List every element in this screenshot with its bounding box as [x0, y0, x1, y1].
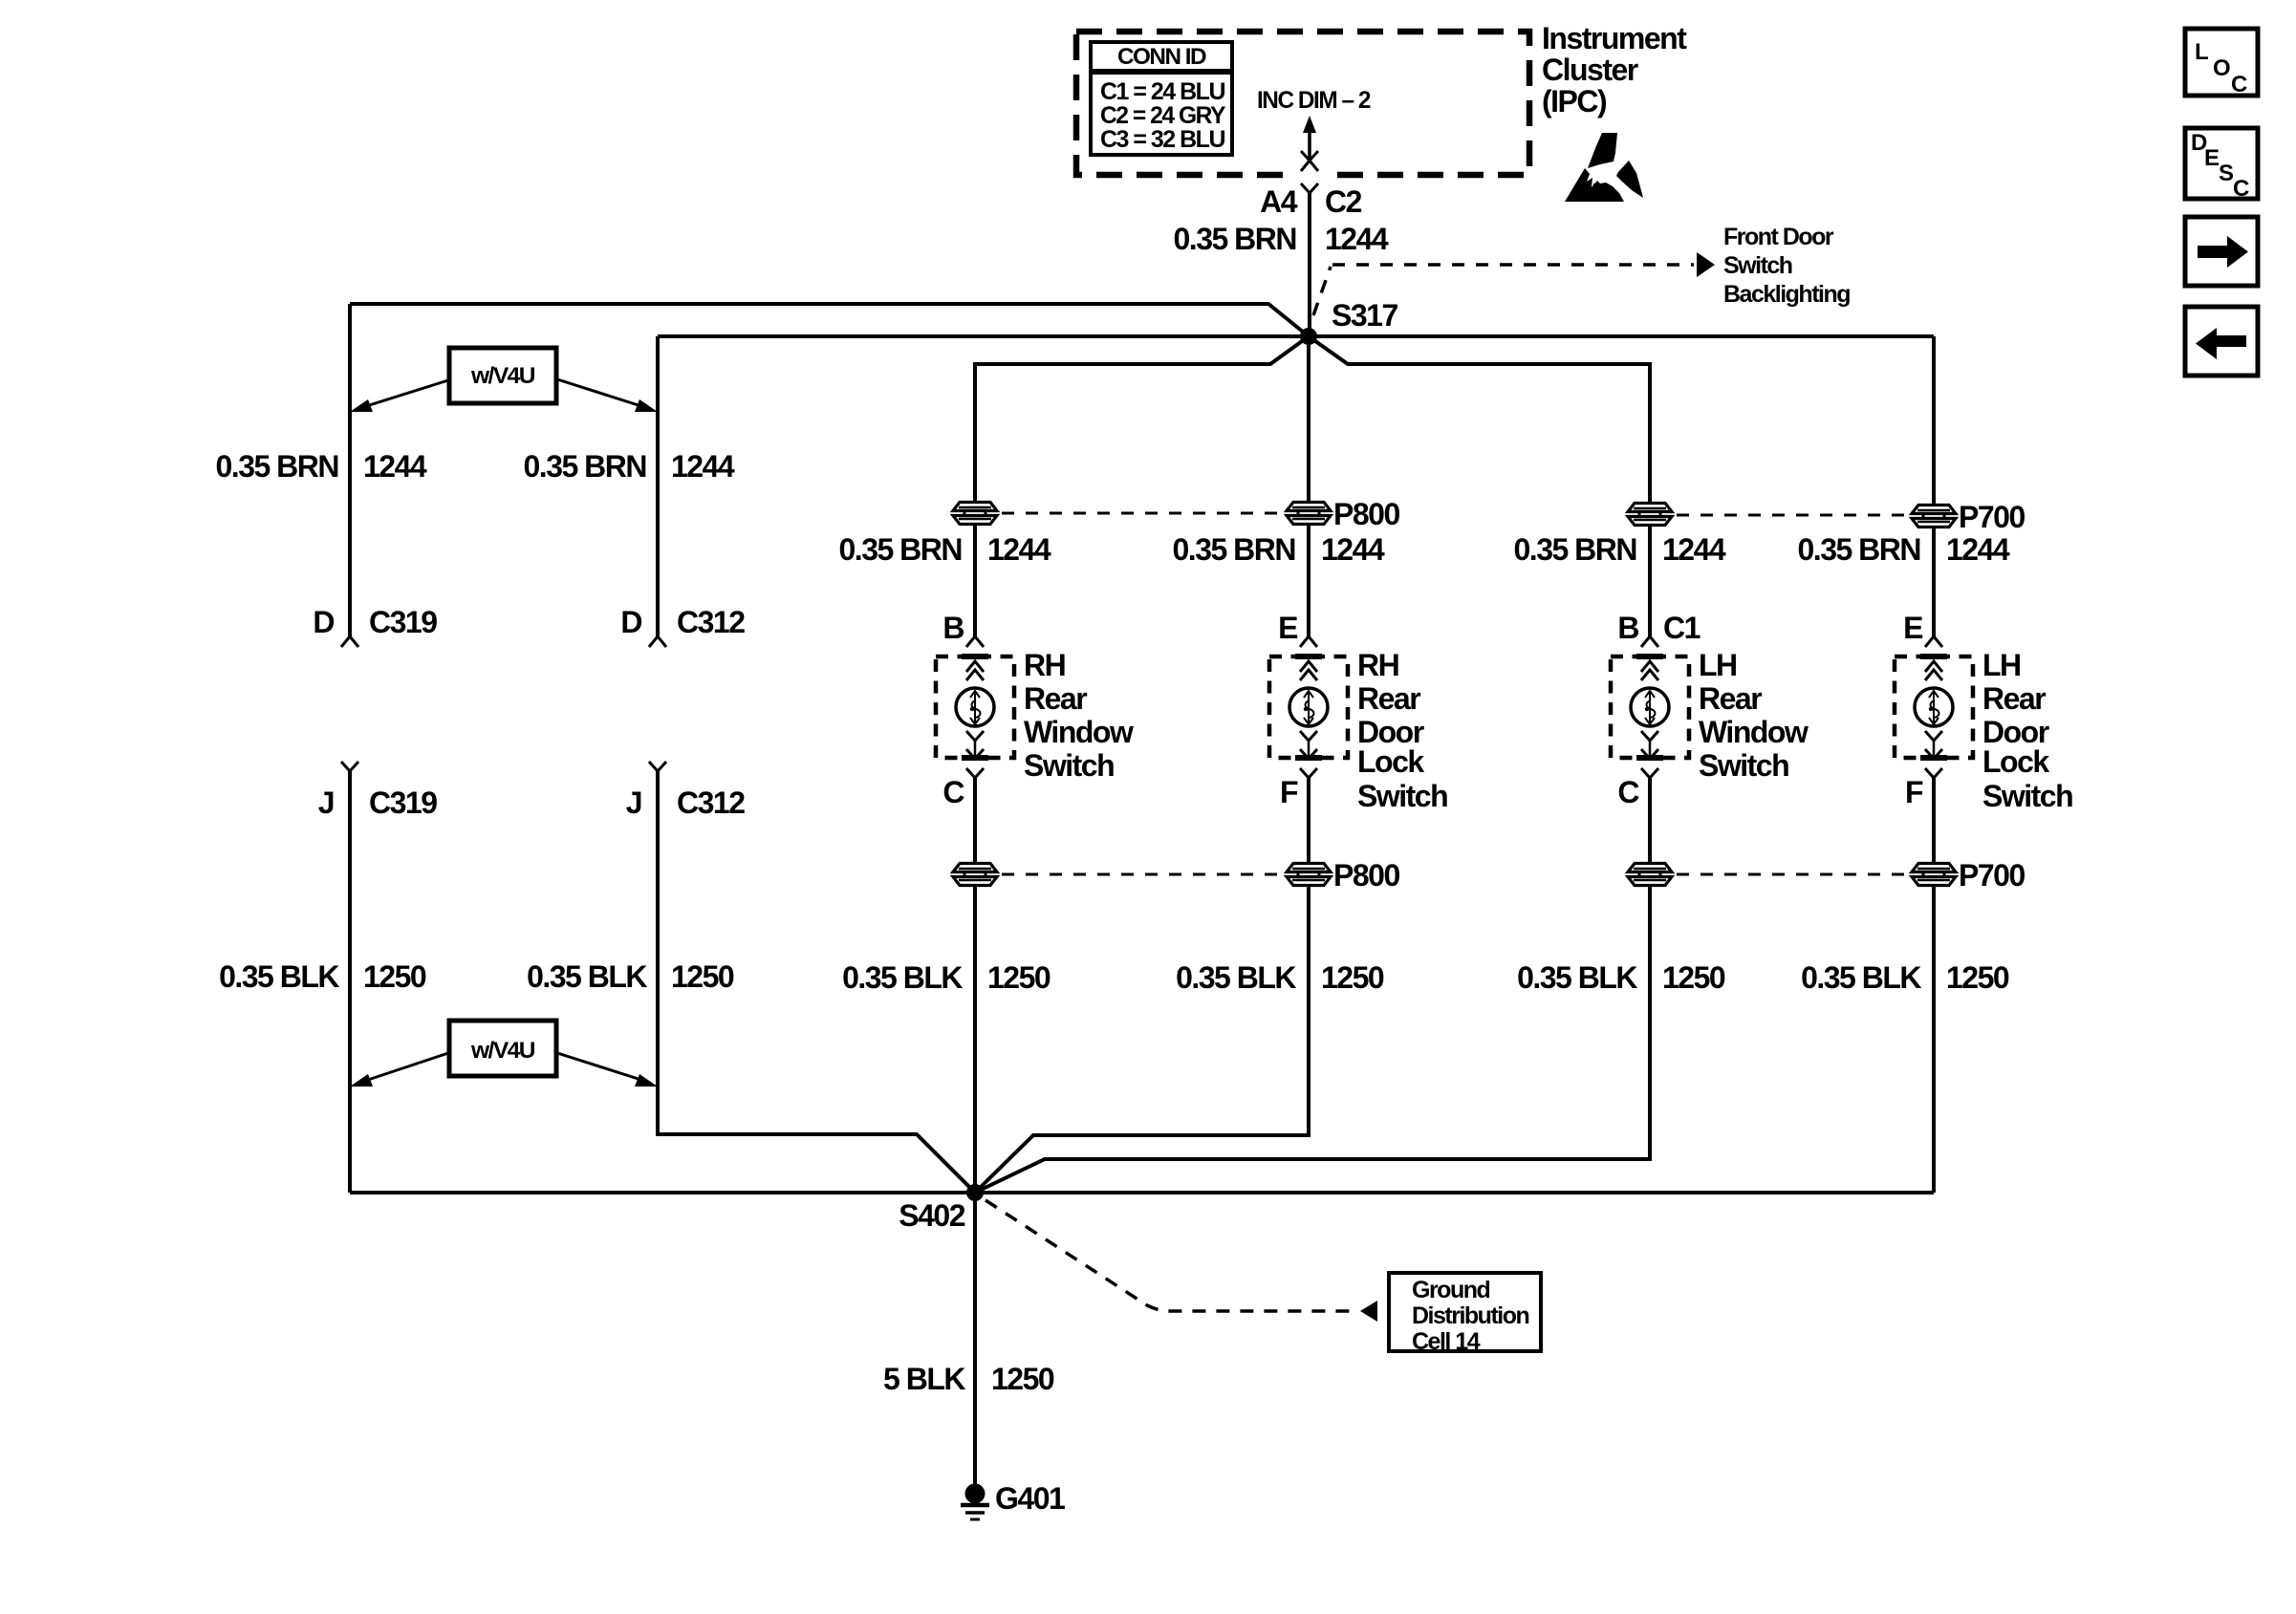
in-line connector top row col3 — [1627, 502, 1673, 527]
svg-text:5 BLK: 5 BLK — [883, 1362, 965, 1396]
dashed reference: Front Door Switch Backlighting — [1313, 224, 1850, 315]
svg-text:D: D — [313, 605, 334, 639]
LOC button — [2185, 29, 2258, 97]
connector pin A4/C2 at IPC boundary — [1292, 168, 1329, 183]
svg-text:C: C — [942, 775, 964, 809]
INC DIM-2 circuit arrow inside IPC — [1257, 87, 1371, 161]
svg-text:Window: Window — [1699, 715, 1809, 749]
svg-text:0.35 BRN: 0.35 BRN — [216, 449, 339, 484]
svg-text:Window: Window — [1024, 715, 1134, 749]
wire: column 2 vertical from S317 — [1307, 336, 1310, 636]
svg-text:LH: LH — [1699, 648, 1737, 682]
svg-text:G401: G401 — [995, 1481, 1065, 1516]
svg-text:C: C — [1617, 775, 1639, 809]
svg-text:S: S — [2219, 161, 2234, 186]
lamp LH Rear Door Lock Switch — [1895, 636, 1973, 778]
svg-text:1244: 1244 — [1946, 532, 2010, 567]
svg-text:0.35 BRN: 0.35 BRN — [1174, 222, 1297, 256]
svg-text:Cluster: Cluster — [1542, 53, 1638, 87]
svg-text:C319: C319 — [369, 605, 437, 639]
svg-text:Distribution: Distribution — [1412, 1302, 1528, 1329]
svg-text:w/V4U: w/V4U — [470, 1038, 534, 1064]
in-line connector bottom row col3 — [1627, 862, 1673, 887]
svg-text:Rear: Rear — [1699, 681, 1762, 716]
ground G401 — [961, 1481, 1065, 1519]
svg-text:C2: C2 — [1325, 184, 1362, 219]
connector C319 pin J — [341, 762, 358, 771]
svg-text:1244: 1244 — [987, 532, 1051, 567]
svg-text:Instrument: Instrument — [1542, 21, 1687, 55]
wire: C312 lower vertical and run into S402 — [658, 771, 975, 1193]
wire: S402 to G401 ground lead — [973, 1193, 977, 1485]
wire: column 4 lower vertical to bottom bus — [1932, 778, 1936, 1193]
svg-text:P700: P700 — [1959, 500, 2025, 534]
svg-text:C1 = 24 BLU: C1 = 24 BLU — [1100, 78, 1224, 105]
svg-text:0.35 BRN: 0.35 BRN — [1798, 532, 1921, 567]
wire: branch from S317 down-left to column 1 — [975, 336, 1309, 636]
svg-text:0.35 BLK: 0.35 BLK — [842, 960, 963, 995]
svg-text:1244: 1244 — [1321, 532, 1385, 567]
svg-text:0.35 BRN: 0.35 BRN — [839, 532, 963, 567]
svg-text:(IPC): (IPC) — [1542, 84, 1607, 118]
svg-text:E: E — [1278, 611, 1298, 645]
wire: column 4 vertical from top bus — [1932, 336, 1936, 636]
svg-text:1244: 1244 — [1662, 532, 1726, 567]
svg-text:E: E — [1903, 611, 1923, 645]
svg-text:P800: P800 — [1333, 858, 1399, 893]
wire: main top bus from C312 corner through S317 to col4 corner — [658, 334, 1934, 338]
svg-text:1244: 1244 — [671, 449, 735, 484]
connector C312 pin J — [649, 762, 666, 771]
w/V4U flag (upper) — [350, 348, 658, 412]
in-line connector top row col1 — [952, 501, 998, 526]
svg-text:INC DIM – 2: INC DIM – 2 — [1257, 87, 1371, 114]
svg-text:J: J — [626, 785, 641, 820]
wire: bottom ground bus from C319 to col4 through S402 — [350, 1191, 1934, 1194]
svg-text:C3 = 32 BLU: C3 = 32 BLU — [1100, 126, 1224, 153]
svg-text:F: F — [1905, 775, 1923, 809]
svg-text:Rear: Rear — [1982, 681, 2046, 716]
svg-text:F: F — [1280, 775, 1298, 809]
wire: upper-left branch to C319 with diagonal into S317 — [350, 304, 1309, 336]
w/V4U flag (lower) — [350, 1021, 658, 1087]
svg-text:C2 = 24 GRY: C2 = 24 GRY — [1100, 102, 1226, 129]
in-line connector bottom row col4 (P700) — [1911, 862, 1957, 887]
svg-text:1244: 1244 — [1325, 222, 1389, 256]
svg-text:Backlighting: Backlighting — [1723, 281, 1850, 308]
svg-text:1250: 1250 — [1662, 960, 1725, 995]
svg-text:0.35 BLK: 0.35 BLK — [219, 959, 339, 994]
svg-text:1250: 1250 — [991, 1362, 1054, 1396]
dashed reference: Ground Distribution Cell 14 — [986, 1200, 1541, 1355]
svg-text:S317: S317 — [1332, 298, 1397, 333]
in-line connector top row col2 (P800) — [1286, 501, 1332, 526]
Instrument Cluster dashed box — [1076, 32, 1529, 175]
connector C312 pin D — [649, 636, 666, 647]
splice S317 — [1300, 328, 1317, 345]
svg-text:A4: A4 — [1260, 184, 1298, 219]
svg-text:0.35 BLK: 0.35 BLK — [527, 959, 647, 994]
svg-text:C1: C1 — [1663, 611, 1700, 645]
ESD sensitivity symbol — [1565, 133, 1643, 202]
next-page arrow button — [2185, 217, 2258, 286]
svg-text:Rear: Rear — [1024, 681, 1087, 716]
wire: IPC feed down to S317 — [1308, 193, 1311, 336]
svg-text:Switch: Switch — [1982, 779, 2072, 813]
svg-text:E: E — [2204, 145, 2220, 171]
wire: branch from S317 down-right to column 3 — [1309, 336, 1650, 636]
wire: C319 upper vertical — [348, 304, 352, 636]
svg-text:Switch: Switch — [1723, 252, 1792, 279]
svg-text:RH: RH — [1024, 648, 1065, 682]
wire: column 1 lower vertical into S402 — [973, 778, 977, 1193]
svg-text:0.35 BRN: 0.35 BRN — [1173, 532, 1296, 567]
svg-text:P800: P800 — [1333, 497, 1399, 531]
svg-text:0.35 BRN: 0.35 BRN — [1514, 532, 1637, 567]
wire: column 3 lower vertical and run into S402 — [975, 778, 1650, 1193]
svg-text:Lock: Lock — [1982, 744, 2049, 779]
svg-text:1244: 1244 — [363, 449, 427, 484]
lamp LH Rear Window Switch — [1611, 636, 1689, 778]
svg-text:Cell 14: Cell 14 — [1412, 1328, 1481, 1355]
dashed link col1-col2 top — [1002, 512, 1282, 515]
svg-text:B: B — [942, 611, 964, 645]
svg-text:C319: C319 — [369, 785, 437, 820]
svg-text:C: C — [2233, 176, 2249, 202]
svg-text:1250: 1250 — [1946, 960, 2009, 995]
svg-text:C312: C312 — [677, 605, 745, 639]
in-line connector top row col4 (P700) — [1911, 504, 1957, 528]
wire: C312 upper vertical — [656, 336, 660, 636]
svg-text:Rear: Rear — [1357, 681, 1420, 716]
svg-text:0.35 BRN: 0.35 BRN — [524, 449, 647, 484]
svg-text:Switch: Switch — [1357, 779, 1447, 813]
svg-text:1250: 1250 — [987, 960, 1051, 995]
svg-text:Switch: Switch — [1024, 748, 1114, 783]
svg-text:Switch: Switch — [1699, 748, 1788, 783]
dashed link col3-col4 bottom — [1677, 873, 1907, 876]
lamp RH Rear Door Lock Switch — [1269, 636, 1348, 778]
svg-text:Front Door: Front Door — [1723, 224, 1834, 250]
svg-text:0.35 BLK: 0.35 BLK — [1517, 960, 1637, 995]
CONN ID table — [1091, 42, 1232, 155]
dashed link col1-col2 bottom — [1002, 873, 1282, 876]
wire: C319 lower vertical to bottom bus — [348, 771, 352, 1193]
svg-text:C: C — [2231, 72, 2247, 97]
in-line connector bottom row col1 — [952, 862, 998, 887]
prev-page arrow button — [2185, 307, 2258, 376]
splice S402 — [966, 1184, 984, 1201]
svg-text:P700: P700 — [1959, 858, 2025, 893]
svg-text:RH: RH — [1357, 648, 1398, 682]
svg-text:Ground: Ground — [1412, 1277, 1489, 1303]
svg-text:D: D — [620, 605, 641, 639]
svg-text:0.35 BLK: 0.35 BLK — [1801, 960, 1921, 995]
lamp RH Rear Window Switch — [936, 636, 1014, 778]
svg-text:J: J — [318, 785, 334, 820]
svg-text:1250: 1250 — [1321, 960, 1384, 995]
svg-text:LH: LH — [1982, 648, 2021, 682]
svg-text:w/V4U: w/V4U — [470, 363, 534, 389]
svg-text:0.35 BLK: 0.35 BLK — [1176, 960, 1296, 995]
svg-text:C312: C312 — [677, 785, 745, 820]
svg-text:B: B — [1617, 611, 1638, 645]
svg-text:O: O — [2213, 55, 2230, 81]
in-line connector bottom row col2 (P800) — [1286, 862, 1332, 887]
dashed link col3-col4 top — [1677, 514, 1907, 517]
svg-text:CONN ID: CONN ID — [1117, 44, 1206, 70]
DESC button — [2185, 128, 2258, 202]
svg-text:L: L — [2195, 39, 2208, 65]
wire: column 2 lower vertical and run into S402 — [975, 778, 1309, 1193]
connector C319 pin D — [341, 636, 358, 647]
svg-text:1250: 1250 — [363, 959, 426, 994]
svg-text:1250: 1250 — [671, 959, 734, 994]
svg-text:S402: S402 — [899, 1198, 964, 1233]
svg-text:Lock: Lock — [1357, 744, 1424, 779]
